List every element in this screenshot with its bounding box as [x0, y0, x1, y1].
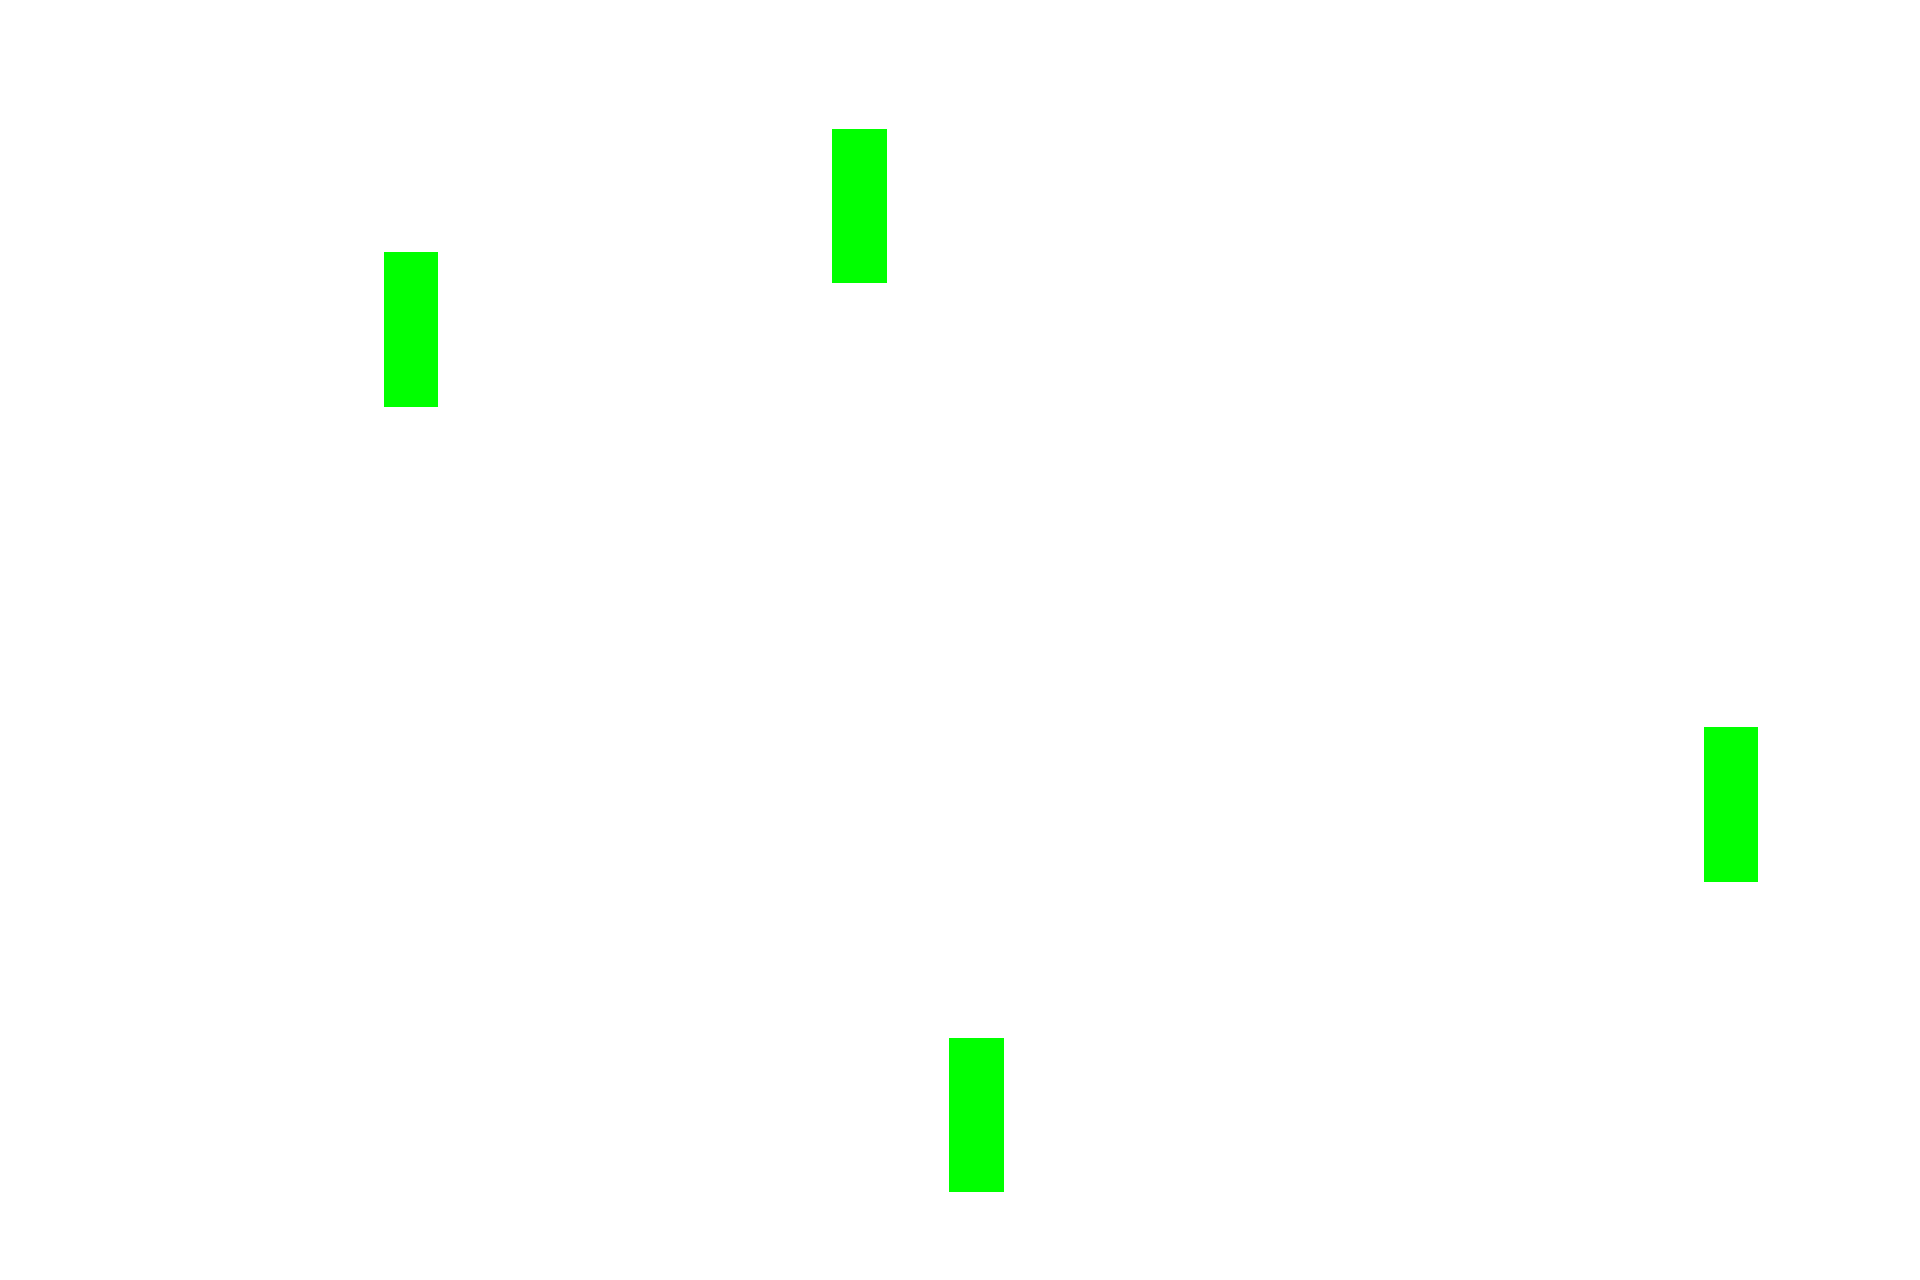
- green rectangle 4 (bottom middle): [949, 1038, 1004, 1192]
- green rectangle 2 (top middle): [832, 129, 887, 283]
- green rectangle 1 (left): [384, 252, 438, 407]
- green rectangle 3 (right): [1704, 727, 1758, 882]
